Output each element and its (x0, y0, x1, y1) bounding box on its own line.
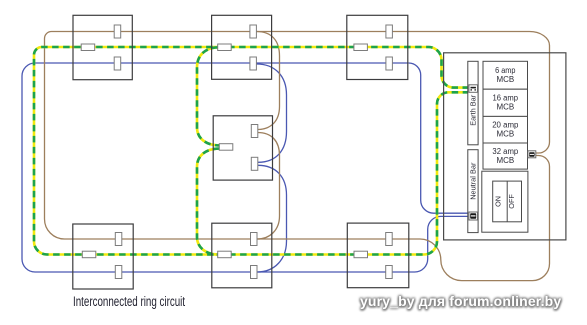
wire: live (brown) middle branch box2-box4-box6 (257, 32, 280, 240)
earth bar terminal (469, 85, 478, 93)
svg-text:MCB: MCB (496, 130, 514, 139)
box5 earth terminal (82, 251, 96, 258)
svg-text:MCB: MCB (496, 156, 514, 165)
svg-text:16 amp: 16 amp (493, 94, 519, 103)
svg-text:20 amp: 20 amp (492, 121, 519, 130)
svg-text:MCB: MCB (496, 103, 514, 112)
box6 earth terminal (218, 251, 232, 258)
neutral bar terminal (469, 212, 478, 220)
box3 neutral terminal (386, 57, 393, 70)
wire: earth (green/yellow) middle branch - yellow base (197, 47, 220, 254)
box5 live terminal (115, 233, 122, 246)
box6 neutral terminal (251, 266, 258, 279)
watermark (360, 293, 561, 309)
box7 live terminal (386, 233, 393, 246)
box5 neutral terminal (115, 266, 122, 279)
box4 neutral terminal (251, 157, 257, 170)
box3 earth terminal (354, 44, 368, 51)
svg-text:Neutral Bar: Neutral Bar (468, 162, 477, 200)
svg-text:OFF: OFF (507, 194, 516, 209)
box1 neutral terminal (114, 57, 121, 70)
box4 earth terminal (219, 144, 233, 151)
wire: neutral (blue) middle branch box2-box4-box6 (257, 64, 287, 272)
earth bar (468, 61, 478, 145)
main switch outer box (482, 171, 528, 232)
svg-text:ON: ON (493, 196, 502, 207)
wire: earth (green/yellow) ring - yellow base (34, 47, 469, 255)
socket box 7 (bottom-right) (347, 223, 409, 288)
32A MCB terminal (528, 151, 536, 158)
box2 earth terminal (218, 44, 232, 51)
socket box 1 (top-left) (73, 15, 132, 79)
socket box 2 (top-middle) (212, 15, 272, 79)
wire: neutral (blue) top-right leg to Neutral Bar (409, 63, 469, 213)
svg-text:MCB: MCB (496, 75, 514, 84)
box4 live terminal (251, 125, 257, 138)
box3 live terminal (386, 25, 393, 38)
socket box 4 (middle spur) (213, 116, 272, 180)
caption (73, 294, 185, 309)
MCB 20A (483, 116, 528, 143)
svg-text:32 amp: 32 amp (492, 147, 518, 156)
box1 live terminal (114, 25, 121, 38)
neutral bar (468, 150, 478, 233)
box7 neutral terminal (386, 266, 393, 279)
main switch inner box (493, 181, 522, 222)
MCB 6A (483, 61, 528, 89)
MCB 16A (483, 89, 528, 116)
consumer unit enclosure (444, 53, 566, 240)
wire: earth ring - green dashes (34, 47, 469, 255)
socket box 6 (bottom-middle) (212, 223, 272, 288)
switch divider (506, 181, 508, 222)
box2 neutral terminal (250, 57, 257, 70)
socket box 5 (bottom-left) (73, 224, 133, 289)
box2 live terminal (250, 25, 257, 38)
box7 earth terminal (354, 251, 368, 258)
socket box 3 (top-right) (347, 15, 408, 79)
svg-text:Earth Bar: Earth Bar (468, 94, 477, 126)
wire: live (brown) ring with legs to 32A MCB (45, 32, 550, 281)
box1 earth terminal (81, 44, 95, 51)
wire: neutral (blue) ring (22, 63, 469, 272)
svg-text:6 amp: 6 amp (495, 66, 516, 75)
MCB 32A (483, 143, 528, 169)
box6 live terminal (251, 233, 258, 246)
wire: earth middle branch - green dashes (197, 47, 220, 254)
